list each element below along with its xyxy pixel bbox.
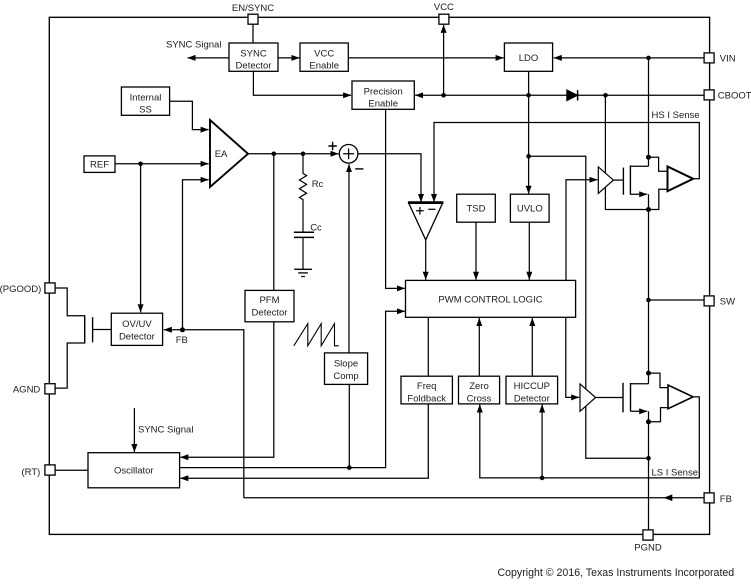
- svg-text:Detector: Detector: [236, 61, 272, 72]
- wire FB to OV/UV Detector: [164, 329, 183, 331]
- svg-text:Detector: Detector: [514, 394, 550, 405]
- wire CBOOT drop to SW node and sense bottom: [605, 95, 667, 209]
- junction EA output b: [301, 152, 306, 157]
- wire driver rail from LDO node: [529, 156, 649, 458]
- wire SYNC Detector to VCC Enable: [278, 57, 299, 59]
- wire Zero Cross to PWM logic: [478, 318, 480, 376]
- svg-text:SS: SS: [139, 105, 152, 116]
- wire PWM to HS driver input: [566, 180, 597, 281]
- svg-text:Detector: Detector: [119, 332, 155, 343]
- wire LS source to sense bottom: [649, 408, 668, 422]
- wire AGND pin to FET source: [55, 343, 85, 388]
- wire EN/SYNC to SYNC Detector: [252, 24, 254, 43]
- terminal CBOOT: [704, 90, 714, 100]
- wire HS source down to LS drain: [648, 194, 650, 383]
- svg-text:Copyright © 2016, Texas Instru: Copyright © 2016, Texas Instruments Inco…: [498, 567, 735, 579]
- svg-text:Enable: Enable: [309, 61, 339, 72]
- svg-text:Cross: Cross: [467, 394, 492, 405]
- svg-text:HICCUP: HICCUP: [514, 381, 550, 392]
- svg-text:OV/UV: OV/UV: [122, 319, 152, 330]
- svg-text:Zero: Zero: [469, 381, 489, 392]
- svg-text:(RT): (RT): [21, 467, 40, 478]
- block Internal SS: [121, 87, 169, 115]
- svg-text:SYNC Signal: SYNC Signal: [166, 40, 221, 51]
- wire EA output: [248, 153, 339, 155]
- block VCC Enable: [300, 43, 348, 71]
- wire FB riser: [183, 330, 244, 498]
- ground: [294, 269, 312, 276]
- wire Slope Comp down to oscillator net: [348, 384, 350, 467]
- transistor HS FET: [623, 165, 648, 194]
- wire PWM logic to Freq Foldback: [427, 317, 429, 376]
- block Zero Cross: [459, 376, 500, 404]
- wire HS I Sense loop to comparator: [434, 123, 699, 203]
- wire LS drain to sense top: [649, 373, 668, 388]
- block PWM CONTROL LOGIC: [406, 280, 576, 317]
- wire FB pin line: [244, 497, 704, 499]
- svg-text:Foldback: Foldback: [407, 394, 446, 405]
- capacitor Cc: [294, 232, 314, 237]
- svg-text:Internal: Internal: [130, 92, 162, 103]
- wire VCC Enable to LDO: [348, 57, 503, 59]
- wire UVLO to PWM logic: [528, 222, 530, 280]
- resistor Rc: [299, 154, 306, 232]
- terminal VIN: [704, 53, 714, 63]
- wire PFM Detector to Oscillator: [180, 322, 273, 458]
- junction LDO out: [526, 93, 531, 98]
- svg-text:PFM: PFM: [259, 295, 279, 306]
- wire LS I Sense to HICCUP Detector: [541, 405, 543, 478]
- transistor LS FET: [623, 383, 649, 413]
- svg-text:VCC: VCC: [434, 2, 454, 13]
- terminal PGND: [643, 530, 653, 540]
- wire Slope Comp up to summing junction: [348, 164, 350, 353]
- wire VCC riser: [443, 25, 445, 95]
- junction oscillator slope node: [347, 465, 352, 470]
- svg-text:Precision: Precision: [364, 86, 403, 97]
- amplifier HS current sense: [668, 167, 694, 192]
- svg-text:SYNC Signal: SYNC Signal: [138, 424, 193, 435]
- summing minus label: [355, 168, 363, 170]
- svg-text:EN/SYNC: EN/SYNC: [232, 3, 274, 14]
- svg-text:CBOOT: CBOOT: [718, 90, 751, 101]
- terminal EN/SYNC: [248, 14, 258, 24]
- svg-text:VCC: VCC: [314, 48, 334, 59]
- wire PGOOD pin to FET drain: [55, 288, 85, 316]
- wire PGOOD FET gate to OV/UV Detector: [93, 329, 112, 331]
- wire LS driver to gate: [596, 397, 623, 399]
- wire HICCUP to PWM logic: [531, 318, 533, 376]
- wire LS source down to PGND: [648, 411, 650, 530]
- block Freq Foldback: [401, 376, 452, 404]
- junction EA output a: [272, 152, 277, 157]
- svg-text:Detector: Detector: [252, 308, 288, 319]
- junction LS drain: [646, 371, 651, 376]
- svg-text:PWM CONTROL LOGIC: PWM CONTROL LOGIC: [438, 295, 542, 306]
- wire EA output to PFM Detector: [273, 154, 275, 291]
- terminal AGND: [45, 384, 55, 394]
- wire diode to CBOOT: [578, 94, 704, 96]
- wire HS drain to sense top: [649, 157, 667, 171]
- svg-text:(PGOOD): (PGOOD): [0, 284, 41, 295]
- wire RT pin to Oscillator: [55, 469, 88, 471]
- wire TSD to PWM logic: [475, 222, 477, 280]
- amplifier LS current sense: [668, 385, 693, 409]
- junction driver rail: [646, 456, 651, 461]
- svg-text:Oscillator: Oscillator: [114, 466, 154, 477]
- block TSD: [457, 194, 496, 222]
- wire HS driver to gate: [613, 179, 623, 181]
- svg-text:SW: SW: [720, 296, 735, 307]
- wire PWM to LS driver input: [566, 317, 579, 397]
- wire SYNC Detector to Precision Enable: [253, 71, 351, 95]
- wire REF to EA: [115, 163, 209, 165]
- svg-text:FB: FB: [720, 494, 732, 505]
- junction LS I Sense HICCUP: [540, 476, 545, 481]
- transistor PGOOD FET: [85, 315, 93, 343]
- block REF: [84, 156, 115, 173]
- wire comparator output to PWM logic: [425, 240, 427, 280]
- junction VCC rail: [441, 93, 446, 98]
- buffer LS gate driver: [580, 384, 596, 411]
- arrow FB line mid: [664, 494, 673, 501]
- sawtooth waveform: [294, 324, 339, 346]
- junction CBOOT drop: [603, 93, 608, 98]
- summing junction plus cross: [343, 148, 354, 159]
- wire VIN drop to HS drain: [648, 58, 650, 166]
- IC boundary: [49, 17, 709, 534]
- wire Precision Enable to PWM logic: [386, 109, 405, 288]
- summing plus label: [328, 142, 336, 150]
- block UVLO: [510, 194, 549, 222]
- summing junction: [339, 145, 358, 164]
- svg-text:LS I Sense: LS I Sense: [652, 467, 698, 478]
- terminal VCC: [439, 14, 449, 24]
- wire SYNC Signal into Oscillator: [133, 408, 135, 452]
- wire LDO down to UVLO: [528, 71, 530, 193]
- svg-text:TSD: TSD: [467, 204, 486, 215]
- comparator PWM (triangle): [409, 203, 443, 240]
- svg-text:SYNC: SYNC: [240, 48, 267, 59]
- svg-text:UVLO: UVLO: [517, 204, 543, 215]
- wire SW node to SW pin: [649, 299, 705, 301]
- wire CBOOT rail west into Precision Enable: [415, 94, 567, 96]
- wire LS I Sense to Zero Cross: [480, 397, 700, 478]
- junction HS drain: [646, 155, 651, 160]
- wire VIN to LDO: [554, 57, 704, 59]
- terminal PGOOD: [45, 283, 55, 293]
- block Slope Comp: [325, 353, 368, 385]
- svg-text:HS I Sense: HS I Sense: [652, 110, 700, 121]
- block OV/UV Detector: [111, 313, 162, 345]
- svg-text:Rc: Rc: [312, 179, 324, 190]
- svg-text:Freq: Freq: [417, 381, 437, 392]
- junction LS source: [646, 419, 651, 424]
- junction REF node: [138, 162, 143, 167]
- junction FB node: [180, 327, 185, 332]
- block LDO: [504, 43, 552, 71]
- svg-text:REF: REF: [90, 160, 109, 171]
- wire SYNC Signal out (left arrow): [188, 57, 229, 59]
- junction HS source SW: [646, 207, 651, 212]
- comparator minus sign: [428, 208, 435, 210]
- terminal RT: [45, 465, 55, 475]
- comparator plus sign: [416, 207, 424, 215]
- op-amp EA: [210, 120, 248, 187]
- block HICCUP Detector: [506, 376, 558, 404]
- terminal FB: [704, 493, 714, 503]
- svg-text:Comp: Comp: [333, 371, 358, 382]
- wire Internal SS to EA: [170, 101, 209, 129]
- junction LDO rail lower: [526, 154, 531, 159]
- svg-text:AGND: AGND: [13, 384, 41, 395]
- wire Freq Foldback to Oscillator: [180, 404, 428, 478]
- wire Oscillator to PWM logic: [180, 311, 405, 467]
- svg-text:PGND: PGND: [634, 543, 662, 554]
- junction SW pin node: [646, 298, 651, 303]
- wire sum output to comparator plus: [358, 154, 421, 202]
- svg-text:EA: EA: [215, 149, 228, 160]
- block Precision Enable: [352, 81, 414, 109]
- wire REF node to OV/UV Detector: [140, 164, 142, 312]
- block SYNC Detector: [229, 43, 278, 71]
- block Oscillator: [88, 453, 180, 488]
- svg-text:Cc: Cc: [310, 223, 322, 234]
- svg-text:Enable: Enable: [368, 99, 398, 110]
- wire FB to EA inverting input: [183, 180, 209, 330]
- svg-text:LDO: LDO: [519, 53, 539, 64]
- svg-text:Slope: Slope: [334, 359, 358, 370]
- block PFM Detector: [245, 290, 294, 321]
- terminal SW: [704, 296, 714, 306]
- diode boot: [567, 90, 578, 100]
- svg-text:FB: FB: [176, 335, 188, 346]
- svg-text:VIN: VIN: [720, 53, 736, 64]
- junction VIN drop: [646, 56, 651, 61]
- buffer HS gate driver: [598, 167, 613, 194]
